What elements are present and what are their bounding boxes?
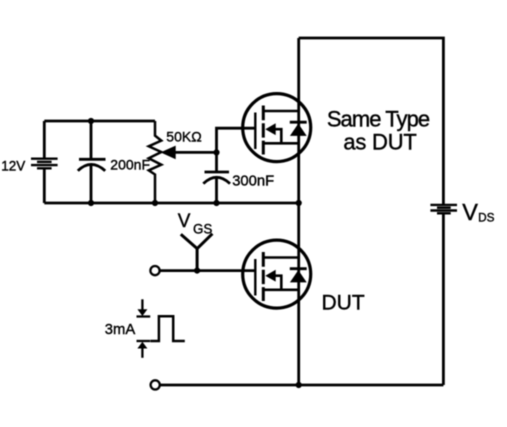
wire left circuit top rail (44, 120, 155, 123)
capacitor C1 200nF (78, 159, 106, 171)
wire top rail and right rail upper segment (299, 38, 444, 205)
transistor Q2 DUT (243, 240, 311, 308)
wire DUT gate from input terminal (160, 269, 256, 272)
svg-text:3mA: 3mA (105, 322, 136, 338)
capacitor C2 300nF (203, 172, 230, 184)
wire center drain-source rail (297, 38, 300, 385)
node: 300nF bottom (213, 200, 219, 206)
node: pot bottom (152, 200, 158, 206)
svg-text:300nF: 300nF (232, 174, 274, 190)
svg-text:GS: GS (193, 221, 212, 236)
svg-text:200nF: 200nF (110, 157, 150, 173)
wire 12V battery bottom leg (43, 168, 46, 203)
svg-text:V: V (178, 211, 191, 232)
svg-text:V: V (462, 199, 478, 225)
node: 200nF bottom (88, 200, 94, 206)
node: VGS probe on gate wire (194, 268, 200, 274)
potentiometer R1 50K body (149, 121, 162, 203)
wire bottom rail (160, 384, 443, 387)
node: DUT source at bottom rail (296, 382, 302, 388)
svg-text:as DUT: as DUT (343, 130, 416, 155)
wire 12V battery top leg (43, 121, 46, 159)
wire left circuit bottom rail (44, 202, 298, 205)
wire 300nF top leg (215, 152, 218, 172)
VGS probe fork (181, 234, 213, 271)
node: source rail joins bottom rail of left circuit (296, 200, 302, 206)
node: 200nF top (88, 118, 94, 124)
svg-text:50KΩ: 50KΩ (166, 128, 201, 144)
svg-text:DS: DS (478, 211, 495, 225)
3mA pulse amplitude marker top arrow (137, 299, 151, 316)
svg-text:12V: 12V (1, 159, 25, 174)
3mA current pulse waveform (150, 316, 184, 341)
3mA pulse amplitude marker bottom arrow (137, 341, 151, 358)
node: wiper / 300nF / gate (213, 149, 219, 155)
svg-text:Same Type: Same Type (327, 107, 430, 132)
wire 200nF bottom leg (90, 165, 93, 203)
wire potentiometer wiper to node (175, 151, 217, 154)
wire 300nF bottom leg (215, 178, 218, 203)
wire 200nF top leg (90, 121, 93, 159)
potentiometer R1 wiper arrow (161, 146, 176, 160)
wire node up and right to Q1 gate (217, 128, 256, 152)
input terminal (gate) open circle (150, 266, 159, 275)
battery B1 12V (31, 159, 58, 169)
battery B2 VDS (430, 205, 457, 213)
transistor Q1 (same type as DUT) (243, 94, 311, 162)
input terminal (source/bottom) open circle (151, 380, 160, 389)
wire right rail lower segment (442, 213, 445, 385)
svg-text:DUT: DUT (322, 292, 365, 315)
